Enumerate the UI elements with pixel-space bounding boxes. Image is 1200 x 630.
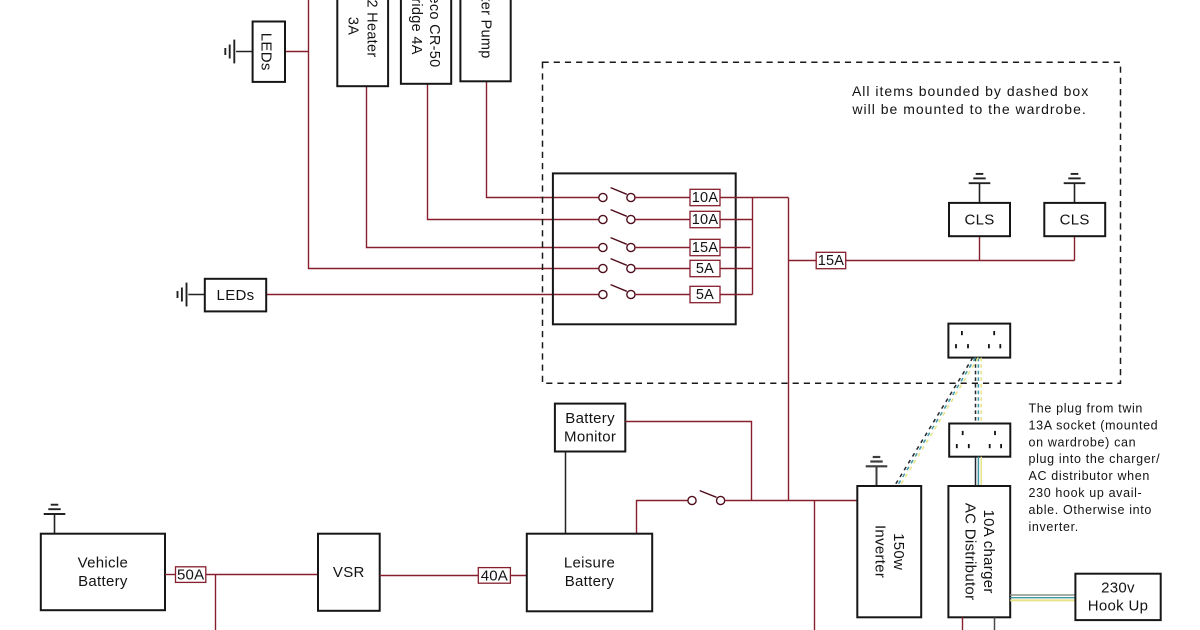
wire: SW5 to fuse	[635, 294, 690, 296]
fuse 40A	[478, 568, 510, 584]
wire: charger 12v output stub	[962, 617, 964, 630]
ground (lower LEDs)	[178, 283, 205, 307]
svg-text:230 hook up avail-: 230 hook up avail-	[1029, 486, 1143, 500]
svg-text:eco CR-50: eco CR-50	[426, 0, 442, 68]
svg-text:3A: 3A	[345, 17, 361, 35]
svg-text:AC distributor when: AC distributor when	[1029, 469, 1150, 483]
switch SW5	[599, 285, 635, 299]
wire: LEDs (lower) to switch row 5	[266, 294, 599, 296]
svg-text:10A charger: 10A charger	[980, 509, 997, 593]
ground above CLS1	[969, 174, 991, 203]
wire: fuse row4 to bus	[720, 268, 753, 270]
wire: fridge feed to switch row 2	[428, 84, 599, 220]
wire: CLS1 drop	[979, 236, 981, 260]
wire: isolator switch to inverter	[725, 500, 859, 502]
svg-text:LEDs: LEDs	[217, 287, 255, 304]
wire: main feed vertical to battery circuit	[788, 198, 790, 501]
fuse 10A row2	[690, 211, 720, 227]
svg-text:will be mounted to the wardrob: will be mounted to the wardrobe.	[851, 101, 1086, 117]
230v hook up box	[1075, 574, 1160, 620]
svg-text:CLS: CLS	[964, 212, 994, 229]
svg-text:Vehicle: Vehicle	[78, 555, 128, 572]
cable: dashed 3-core socket to inverter	[895, 358, 979, 486]
note: plug explanation paragraph	[1029, 402, 1161, 534]
svg-text:13A socket (mounted: 13A socket (mounted	[1029, 418, 1159, 432]
svg-text:10A: 10A	[692, 190, 719, 206]
fuse 5A row4	[690, 260, 720, 276]
svg-text:able. Otherwise into: able. Otherwise into	[1029, 503, 1152, 517]
wire: charger negative stub (gray)	[994, 617, 996, 630]
wire: fuse row2 to bus	[720, 219, 753, 221]
svg-text:150w: 150w	[890, 533, 907, 570]
svg-text:ridge 4A: ridge 4A	[408, 0, 424, 55]
switch SW3	[599, 238, 635, 252]
svg-text:on wardrobe) can: on wardrobe) can	[1029, 435, 1137, 449]
inverter box 150w	[857, 486, 921, 617]
wire: SW3 to fuse	[635, 247, 690, 249]
wire: fuse row1 to bus	[720, 197, 789, 199]
VSR box	[318, 534, 380, 611]
svg-text:230v: 230v	[1101, 579, 1135, 596]
wire: leisure battery to isolator switch	[637, 501, 688, 534]
svg-text:10A: 10A	[692, 212, 719, 228]
vehicle battery box	[41, 534, 165, 611]
wire: feed drop to bottom edge	[814, 501, 816, 630]
fridge box Waeco CR-50 (cut off at top)	[401, 0, 451, 84]
CLS box 1	[949, 203, 1010, 236]
wire: fuse row5 to bus	[720, 294, 753, 296]
cable: 3-core AC distributor to hook up	[1010, 595, 1075, 600]
svg-text:40A: 40A	[481, 567, 508, 584]
fuse 15A inline	[816, 252, 846, 268]
svg-text:Battery: Battery	[78, 573, 128, 590]
ground above inverter	[866, 457, 888, 486]
svg-text:50A: 50A	[177, 567, 204, 584]
svg-text:2 Heater: 2 Heater	[364, 0, 380, 58]
svg-text:15A: 15A	[818, 253, 845, 269]
svg-text:Hook Up: Hook Up	[1088, 598, 1148, 615]
svg-text:CLS: CLS	[1060, 212, 1090, 229]
wire: SW4 to fuse	[635, 268, 690, 270]
cable: dashed 3-core socket to socket	[976, 358, 982, 424]
svg-text:5A: 5A	[696, 287, 714, 303]
battery monitor box	[555, 404, 625, 452]
twin 13A socket (lower, plug)	[949, 424, 1010, 457]
CLS box 2	[1044, 203, 1105, 236]
svg-text:Inverter: Inverter	[872, 525, 889, 578]
leisure battery box	[527, 534, 652, 612]
svg-text:5A: 5A	[696, 261, 714, 277]
wire: SW1 to fuse	[635, 197, 690, 199]
fuse 10A row1	[690, 189, 720, 205]
wire: junction drop to bottom edge	[215, 575, 217, 630]
wire: battery monitor sense (black)	[565, 452, 567, 534]
svg-text:Battery: Battery	[565, 410, 615, 427]
wire: water pump feed to switch row 1	[487, 81, 599, 197]
wire: 12v trunk from top, feeds switch row 4	[309, 0, 599, 269]
svg-text:Monitor: Monitor	[564, 429, 616, 446]
svg-text:15A: 15A	[692, 240, 719, 256]
switch SW4	[599, 259, 635, 273]
svg-text:All items bounded by dashed bo: All items bounded by dashed box	[852, 83, 1089, 99]
svg-text:The plug from twin: The plug from twin	[1029, 402, 1144, 416]
svg-text:inverter.: inverter.	[1029, 520, 1079, 534]
svg-text:VSR: VSR	[333, 564, 365, 581]
svg-text:AC Distributor: AC Distributor	[962, 503, 979, 601]
heater box (cut off at top)	[337, 0, 388, 86]
wire: heater feed to switch row 3	[367, 86, 599, 247]
wire: vehicle battery to 50A fuse	[165, 574, 176, 576]
AC distributor / 10A charger box	[948, 486, 1010, 617]
LEDs box (top, vertical text)	[253, 22, 285, 82]
wire: 50A fuse to VSR	[206, 574, 318, 576]
wire: VSR to 40A fuse	[380, 575, 479, 577]
fuse 5A row5	[690, 286, 720, 302]
svg-text:Leisure: Leisure	[564, 555, 615, 572]
svg-text:Battery: Battery	[565, 573, 615, 590]
fuse 15A row3	[690, 239, 720, 255]
switch SW2	[599, 210, 635, 224]
wire: 40A fuse to leisure battery	[510, 575, 526, 577]
svg-text:plug into the charger/: plug into the charger/	[1029, 452, 1161, 466]
LEDs box (lower)	[205, 279, 266, 312]
dashed wardrobe boundary box	[543, 62, 1121, 383]
fuse 50A	[176, 567, 206, 583]
ground above CLS2	[1064, 174, 1086, 203]
svg-text:ter Pump: ter Pump	[478, 0, 494, 59]
water pump box (cut off at top)	[460, 0, 510, 81]
wire: fuse row3 to bus	[720, 247, 751, 249]
switch SW1	[599, 188, 635, 202]
wire: battery monitor to main feed	[625, 422, 751, 501]
switch panel box	[553, 173, 736, 324]
wire: CLS lighting feed	[789, 260, 1075, 262]
wire: CLS2 drop	[1074, 236, 1076, 260]
ground above vehicle battery	[44, 505, 66, 534]
wire: fuse output bus vertical	[752, 198, 754, 295]
cable: solid 3-core plug to AC distributor	[976, 457, 982, 486]
ground (top LEDs)	[225, 40, 252, 64]
wire: LEDs (top) to trunk	[285, 51, 309, 53]
wire: SW2 to fuse	[635, 219, 690, 221]
svg-text:LEDs: LEDs	[258, 33, 275, 71]
switch SW6 (battery isolator)	[688, 491, 725, 505]
twin 13A socket (upper, wardrobe)	[948, 324, 1010, 358]
